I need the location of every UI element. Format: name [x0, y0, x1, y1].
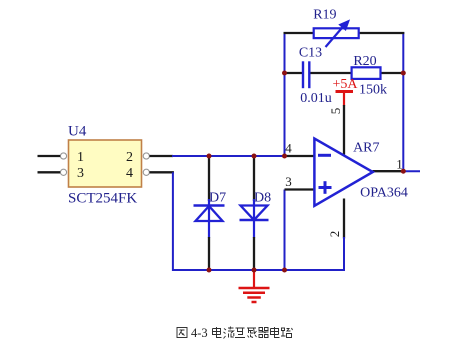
caption 互 — [235, 328, 245, 338]
svg-text:D8: D8 — [254, 191, 271, 206]
D7 branch wire — [208, 156, 210, 270]
caption 感 — [247, 328, 257, 338]
svg-text:0.01u: 0.01u — [300, 91, 332, 106]
capacitor C13 — [299, 46, 332, 107]
diode D8 — [240, 191, 272, 221]
svg-text:SCT254FK: SCT254FK — [68, 191, 137, 207]
svg-text:R19: R19 — [313, 8, 336, 23]
svg-text:2: 2 — [126, 150, 133, 165]
wire feedback left vertical — [284, 32, 286, 156]
caption 路 — [281, 328, 293, 338]
wire mid feedback run — [285, 72, 404, 74]
U4 pin 2 stub — [150, 155, 174, 157]
wire pin3 feed vertical — [284, 190, 286, 271]
caption 电2 — [271, 327, 280, 338]
wire feedback top run — [284, 32, 405, 34]
svg-text:R20: R20 — [353, 54, 376, 69]
svg-text:U4: U4 — [68, 124, 87, 140]
U4 pin 4 stub — [150, 171, 174, 173]
potentiometer R19 — [313, 8, 358, 48]
D8 branch wire — [253, 156, 255, 270]
op-amp pin 3 stub — [285, 188, 316, 190]
junction dot D7 bottom — [207, 268, 212, 273]
ground — [239, 270, 270, 302]
svg-text:150k: 150k — [359, 83, 387, 98]
svg-text:3: 3 — [77, 166, 84, 181]
op-amp pin 2 wire — [343, 199, 345, 239]
U4 pin circles — [60, 153, 149, 176]
resistor R20 — [352, 54, 387, 98]
svg-text:+5A: +5A — [332, 77, 358, 92]
caption 图 — [177, 328, 187, 338]
op-amp pin 4 stub — [285, 155, 316, 157]
junction dot pin4 — [282, 154, 287, 159]
transformer U4 — [68, 124, 142, 207]
svg-text:OPA364: OPA364 — [360, 186, 408, 201]
diode D7 — [194, 191, 227, 222]
op-amp pin 1 output stub — [373, 170, 404, 172]
wire left vertical — [173, 172, 345, 270]
wire output extension — [403, 170, 420, 172]
U4 pin 1 stub — [38, 155, 61, 157]
svg-text:1: 1 — [77, 150, 84, 165]
wire top signal — [172, 155, 286, 157]
caption 流 — [224, 327, 234, 339]
svg-text:5: 5 — [328, 108, 343, 115]
junction dot fb left — [282, 71, 287, 76]
junction dot output — [401, 169, 406, 174]
op-amp pin 5 wire — [343, 105, 345, 155]
U4 pin 3 stub — [38, 171, 61, 173]
junction dot D8 top — [252, 154, 257, 159]
svg-text:2: 2 — [327, 231, 342, 238]
svg-text:4: 4 — [285, 141, 292, 156]
op-amp AR7 — [314, 139, 407, 206]
svg-text:4-3: 4-3 — [191, 326, 208, 340]
junction dot fb right — [401, 71, 406, 76]
power +5A port — [332, 77, 358, 106]
wire pin2 to bottom — [343, 237, 345, 271]
caption 电 — [213, 327, 222, 338]
svg-text:D7: D7 — [209, 191, 226, 206]
junction dot D7 top — [207, 154, 212, 159]
svg-text:3: 3 — [285, 174, 292, 189]
svg-text:C13: C13 — [299, 46, 322, 61]
svg-text:AR7: AR7 — [353, 141, 379, 156]
wire feedback right vertical — [402, 32, 404, 171]
junction dot pin3 bottom — [282, 268, 287, 273]
junction dot ground — [252, 268, 257, 273]
svg-text:4: 4 — [126, 166, 133, 181]
caption 器 — [259, 328, 269, 338]
